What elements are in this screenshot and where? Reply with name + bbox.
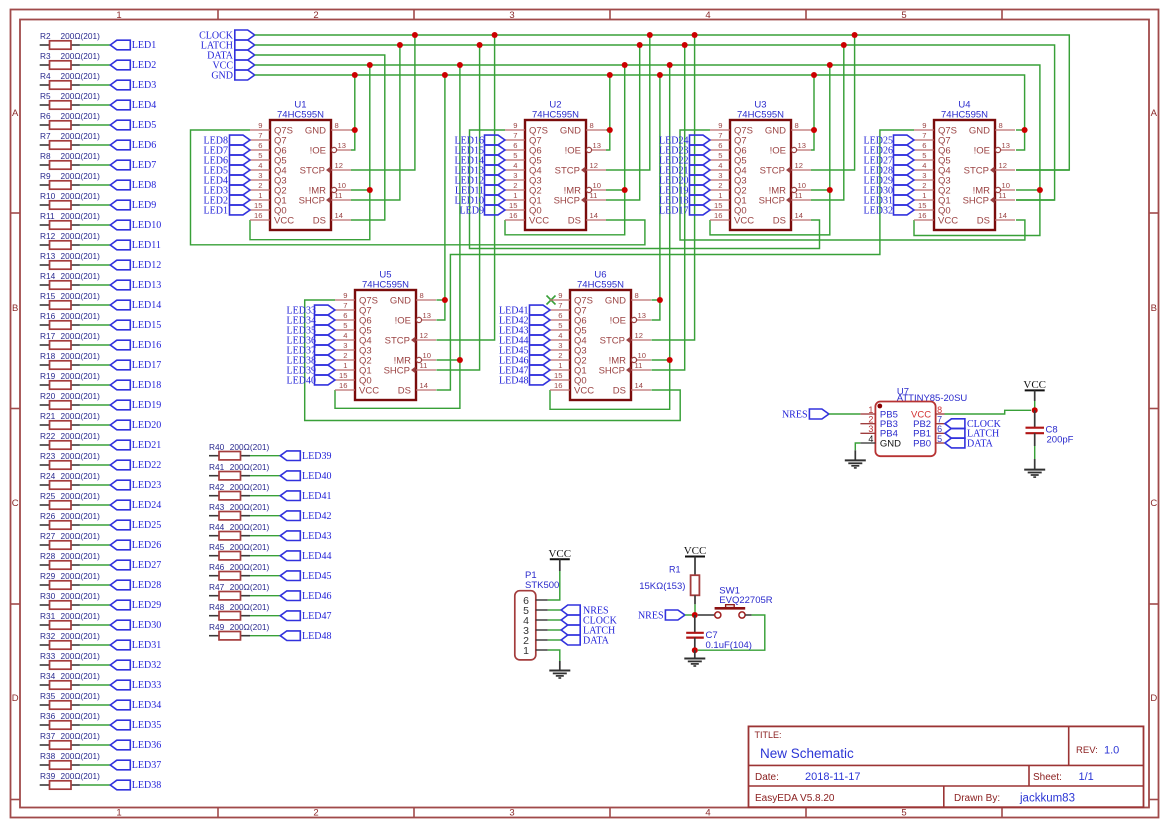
wire U4 GND pin8 stub	[1016, 129, 1025, 131]
svg-text:STCP: STCP	[385, 335, 410, 346]
svg-text:R32: R32	[40, 631, 56, 641]
wire	[80, 564, 110, 566]
net label LED37	[110, 760, 161, 771]
svg-text:!OE: !OE	[310, 145, 326, 156]
svg-text:5: 5	[558, 321, 562, 330]
net label LED12	[455, 175, 505, 186]
svg-text:200Ω(201): 200Ω(201)	[230, 542, 270, 552]
wire P1 pin6 to VCC	[548, 571, 560, 600]
svg-text:R21: R21	[40, 411, 56, 421]
svg-text:6: 6	[258, 141, 262, 150]
svg-text:16: 16	[714, 211, 722, 220]
resistor R18	[40, 351, 100, 369]
net label LED36	[287, 335, 335, 346]
svg-text:R5: R5	[40, 91, 51, 101]
svg-text:LED44: LED44	[302, 551, 331, 562]
svg-text:3: 3	[558, 341, 562, 350]
svg-text:1.0: 1.0	[1104, 745, 1119, 757]
net label LED5	[204, 165, 250, 176]
svg-text:2: 2	[718, 181, 722, 190]
shift register U2 74HC595N	[505, 100, 606, 231]
ground at U7	[845, 450, 866, 468]
svg-text:Drawn By:: Drawn By:	[954, 793, 1000, 804]
svg-text:2: 2	[258, 181, 262, 190]
svg-text:LED3: LED3	[132, 80, 156, 91]
net label LED42	[280, 511, 331, 522]
svg-text:200Ω(201): 200Ω(201)	[61, 271, 101, 281]
svg-text:R41: R41	[209, 462, 225, 472]
svg-text:LED12: LED12	[132, 260, 161, 271]
svg-text:3: 3	[513, 171, 517, 180]
svg-text:7: 7	[258, 131, 262, 140]
svg-text:R18: R18	[40, 351, 56, 361]
svg-text:LED48: LED48	[499, 375, 528, 386]
wire	[80, 424, 110, 426]
svg-text:200Ω(201): 200Ω(201)	[230, 482, 270, 492]
net label LED32	[864, 205, 914, 216]
svg-text:0.1uF(104): 0.1uF(104)	[706, 640, 752, 651]
svg-text:LED30: LED30	[132, 620, 161, 631]
svg-text:200Ω(201): 200Ω(201)	[61, 171, 101, 181]
svg-text:jackkum83: jackkum83	[1019, 793, 1075, 805]
net label LED7	[110, 160, 156, 171]
resistor R1 15K	[639, 565, 699, 605]
resistor R6	[40, 111, 100, 129]
resistor R37	[40, 731, 100, 749]
svg-text:STCP: STCP	[300, 165, 325, 176]
connector P1 STK500	[515, 570, 560, 660]
svg-text:10: 10	[798, 181, 806, 190]
svg-text:VCC: VCC	[574, 385, 594, 396]
svg-text:10: 10	[593, 181, 601, 190]
svg-text:R10: R10	[40, 191, 56, 201]
net label LED42	[499, 315, 550, 326]
resistor R12	[40, 231, 100, 249]
svg-text:11: 11	[795, 191, 803, 200]
net label LED44	[280, 551, 331, 562]
resistor R38	[40, 751, 100, 769]
svg-text:200Ω(201): 200Ω(201)	[61, 191, 101, 201]
svg-text:200Ω(201): 200Ω(201)	[61, 451, 101, 461]
svg-text:LED7: LED7	[132, 160, 156, 171]
svg-text:LED18: LED18	[132, 380, 161, 391]
wire	[80, 244, 110, 246]
resistor R49	[209, 622, 269, 640]
svg-text:New Schematic: New Schematic	[760, 746, 854, 761]
wire U5 SHCP	[436, 45, 479, 370]
svg-text:200Ω(201): 200Ω(201)	[61, 351, 101, 361]
svg-text:GND: GND	[390, 295, 411, 306]
net flag CLOCK	[199, 30, 255, 41]
svg-text:200Ω(201): 200Ω(201)	[61, 571, 101, 581]
wire U1 STCP	[351, 35, 415, 170]
capacitor C8 200pF	[1026, 410, 1074, 446]
resistor R30	[40, 591, 100, 609]
svg-text:DS: DS	[313, 215, 326, 226]
ground at C7	[684, 650, 705, 666]
power symbol VCC at C8	[1023, 379, 1046, 401]
svg-text:3: 3	[922, 171, 926, 180]
svg-text:200Ω(201): 200Ω(201)	[61, 511, 101, 521]
shift register U5 74HC595N	[335, 270, 436, 401]
net label LED22	[110, 460, 161, 471]
wire	[80, 264, 110, 266]
svg-text:5: 5	[258, 151, 262, 160]
wire	[80, 644, 110, 646]
resistor R29	[40, 571, 100, 589]
svg-text:LED35: LED35	[132, 720, 161, 731]
net flag LATCH	[201, 40, 255, 51]
wire	[80, 584, 110, 586]
wire	[80, 144, 110, 146]
svg-text:5: 5	[343, 321, 347, 330]
net label LED26	[110, 540, 161, 551]
svg-text:R37: R37	[40, 731, 56, 741]
net label LED38	[110, 780, 161, 791]
no-connect X on U6 pin 9	[547, 296, 556, 305]
net label LED35	[110, 720, 161, 731]
svg-text:3: 3	[868, 424, 873, 434]
resistor R4	[40, 71, 100, 89]
net label LED12	[110, 260, 161, 271]
svg-text:5: 5	[513, 151, 517, 160]
svg-text:R34: R34	[40, 671, 56, 681]
resistor R34	[40, 671, 100, 689]
net flag LATCH at P1	[561, 625, 615, 636]
wire P1 to LATCH	[548, 629, 561, 631]
svg-text:STCP: STCP	[760, 165, 785, 176]
svg-text:15: 15	[554, 371, 562, 380]
svg-text:1: 1	[343, 361, 347, 370]
svg-text:R13: R13	[40, 251, 56, 261]
svg-text:SHCP: SHCP	[299, 195, 325, 206]
net label LED11	[110, 240, 161, 251]
svg-text:200Ω(201): 200Ω(201)	[61, 111, 101, 121]
resistor R41	[209, 462, 269, 480]
wire	[80, 204, 110, 206]
resistor R42	[209, 482, 269, 500]
svg-text:2: 2	[513, 181, 517, 190]
svg-text:SHCP: SHCP	[759, 195, 785, 206]
net label LED24	[659, 135, 710, 146]
svg-text:SHCP: SHCP	[599, 365, 625, 376]
wire	[80, 724, 110, 726]
svg-text:5: 5	[718, 151, 722, 160]
wire	[80, 624, 110, 626]
svg-text:5: 5	[901, 808, 906, 819]
svg-text:VCC: VCC	[529, 215, 549, 226]
net label LED39	[280, 451, 331, 462]
svg-text:200Ω(201): 200Ω(201)	[61, 311, 101, 321]
svg-text:LED11: LED11	[132, 240, 161, 251]
net label LED10	[455, 195, 505, 206]
svg-text:A: A	[1151, 108, 1158, 119]
wire	[250, 495, 280, 497]
svg-text:16: 16	[918, 211, 926, 220]
svg-text:LED19: LED19	[132, 400, 161, 411]
wire P1 to NRES	[548, 609, 561, 611]
resistor R44	[209, 522, 269, 540]
svg-text:200Ω(201): 200Ω(201)	[230, 522, 270, 532]
wire	[80, 64, 110, 66]
svg-text:4: 4	[868, 434, 873, 444]
svg-text:16: 16	[554, 381, 562, 390]
resistor R45	[209, 542, 269, 560]
svg-text:LED9: LED9	[460, 205, 484, 216]
svg-text:LED17: LED17	[132, 360, 161, 371]
svg-text:LED46: LED46	[302, 591, 331, 602]
power symbol VCC at P1	[548, 548, 571, 571]
wire	[80, 704, 110, 706]
wire LATCH bus	[255, 45, 1055, 200]
capacitor C7 0.1uF	[686, 615, 752, 651]
svg-text:2: 2	[558, 351, 562, 360]
wire	[250, 455, 280, 457]
svg-text:R49: R49	[209, 622, 225, 632]
junction NRES node	[692, 612, 698, 618]
wire	[80, 404, 110, 406]
wire U3 STCP	[811, 35, 855, 170]
net label LED36	[110, 740, 161, 751]
resistor R31	[40, 611, 100, 629]
wire	[80, 304, 110, 306]
svg-text:B: B	[1151, 303, 1157, 314]
svg-text:R45: R45	[209, 542, 225, 552]
resistor R23	[40, 451, 100, 469]
svg-text:R4: R4	[40, 71, 51, 81]
net label LED3	[110, 80, 156, 91]
wire U2 GND net	[606, 129, 610, 131]
wire U5 Q7S to U6 DS	[305, 300, 681, 421]
resistor R17	[40, 331, 100, 349]
net label LED28	[864, 165, 914, 176]
svg-text:15: 15	[714, 201, 722, 210]
wire GND bus	[255, 75, 1025, 150]
net label LED21	[659, 165, 710, 176]
svg-text:16: 16	[339, 381, 347, 390]
svg-text:13: 13	[593, 141, 601, 150]
resistor R32	[40, 631, 100, 649]
svg-text:R17: R17	[40, 331, 56, 341]
svg-text:NRES: NRES	[638, 610, 664, 621]
resistor R3	[40, 51, 100, 69]
wire	[250, 575, 280, 577]
net label LED40	[287, 375, 335, 386]
svg-text:LED4: LED4	[132, 100, 156, 111]
svg-text:12: 12	[335, 161, 343, 170]
svg-text:R40: R40	[209, 442, 225, 452]
svg-text:14: 14	[420, 381, 428, 390]
wire NRES flag to node	[685, 614, 695, 616]
svg-text:4: 4	[718, 161, 722, 170]
svg-text:STCP: STCP	[600, 335, 625, 346]
svg-text:R9: R9	[40, 171, 51, 181]
wire	[80, 504, 110, 506]
svg-text:LED20: LED20	[132, 420, 161, 431]
wire	[250, 595, 280, 597]
wire U3 VCC/!MR	[811, 189, 830, 191]
svg-text:200Ω(201): 200Ω(201)	[61, 711, 101, 721]
net label LED44	[499, 335, 550, 346]
svg-text:8: 8	[420, 291, 424, 300]
svg-text:200Ω(201): 200Ω(201)	[61, 291, 101, 301]
svg-text:GND: GND	[211, 70, 233, 81]
svg-text:LED5: LED5	[132, 120, 156, 131]
title block	[749, 726, 1144, 807]
svg-text:DS: DS	[568, 215, 581, 226]
svg-text:!OE: !OE	[770, 145, 786, 156]
svg-text:R15: R15	[40, 291, 56, 301]
svg-text:13: 13	[423, 311, 431, 320]
net label LED6	[204, 155, 250, 166]
svg-text:!OE: !OE	[610, 315, 626, 326]
resistor R28	[40, 551, 100, 569]
resistor R15	[40, 291, 100, 309]
svg-text:LED31: LED31	[132, 640, 161, 651]
svg-text:LED40: LED40	[302, 471, 331, 482]
svg-text:8: 8	[590, 121, 594, 130]
svg-text:1: 1	[116, 808, 121, 819]
svg-text:200Ω(201): 200Ω(201)	[61, 411, 101, 421]
svg-text:6: 6	[513, 141, 517, 150]
svg-text:13: 13	[798, 141, 806, 150]
wire VCC bus	[255, 65, 1040, 236]
wire	[80, 604, 110, 606]
svg-text:200Ω(201): 200Ω(201)	[61, 71, 101, 81]
svg-text:LED8: LED8	[132, 180, 156, 191]
svg-text:VCC: VCC	[274, 215, 294, 226]
net label LED10	[110, 220, 161, 231]
resistor R36	[40, 711, 100, 729]
svg-text:LED48: LED48	[302, 631, 331, 642]
wire U6 SHCP	[651, 45, 684, 370]
wire	[80, 104, 110, 106]
net label LED5	[110, 120, 156, 131]
svg-text:LED41: LED41	[302, 491, 331, 502]
svg-text:200Ω(201): 200Ω(201)	[230, 442, 270, 452]
svg-text:LED17: LED17	[659, 205, 688, 216]
net label LED11	[455, 185, 505, 196]
svg-text:4: 4	[558, 331, 562, 340]
svg-text:4: 4	[343, 331, 347, 340]
svg-text:LED47: LED47	[302, 611, 331, 622]
wire U4 Q7S to U5 DS	[436, 130, 914, 390]
svg-text:GND: GND	[969, 125, 990, 136]
svg-text:LED14: LED14	[132, 300, 161, 311]
wire P1 to DATA	[548, 639, 561, 641]
wire	[80, 464, 110, 466]
svg-text:LED32: LED32	[132, 660, 161, 671]
svg-text:12: 12	[795, 161, 803, 170]
net flag DATA at P1	[561, 635, 609, 646]
resistor R9	[40, 171, 100, 189]
svg-text:!OE: !OE	[974, 145, 990, 156]
svg-text:12: 12	[999, 161, 1007, 170]
svg-text:200Ω(201): 200Ω(201)	[230, 622, 270, 632]
svg-text:200Ω(201): 200Ω(201)	[61, 131, 101, 141]
svg-text:9: 9	[258, 121, 262, 130]
resistor R47	[209, 582, 269, 600]
svg-text:LED36: LED36	[132, 740, 161, 751]
resistor R14	[40, 271, 100, 289]
net label LED17	[659, 205, 710, 216]
svg-text:R48: R48	[209, 602, 225, 612]
resistor R20	[40, 391, 100, 409]
net label LED21	[110, 440, 161, 451]
svg-text:7: 7	[937, 415, 942, 425]
svg-text:!OE: !OE	[395, 315, 411, 326]
svg-text:9: 9	[513, 121, 517, 130]
net label LED31	[110, 640, 161, 651]
wire P1 pin1 to ground	[548, 650, 560, 661]
wire U6 STCP	[651, 35, 694, 340]
svg-text:7: 7	[558, 301, 562, 310]
svg-text:6: 6	[718, 141, 722, 150]
wire U1 VCC/!MR	[351, 189, 370, 191]
wire C8 to ground	[1034, 446, 1036, 459]
wire	[80, 84, 110, 86]
net label LED6	[110, 140, 156, 151]
wire U4 SHCP	[1016, 199, 1055, 201]
resistor R11	[40, 211, 100, 229]
svg-text:STCP: STCP	[964, 165, 989, 176]
svg-text:R42: R42	[209, 482, 225, 492]
svg-text:R31: R31	[40, 611, 56, 621]
svg-text:10: 10	[338, 181, 346, 190]
wire	[80, 544, 110, 546]
wire U1 SHCP	[351, 45, 400, 200]
net label LED16	[110, 340, 161, 351]
svg-text:LED43: LED43	[302, 531, 331, 542]
shift register U6 74HC595N	[550, 270, 651, 401]
svg-text:R19: R19	[40, 371, 56, 381]
net flag DATA	[207, 50, 255, 61]
svg-text:3: 3	[509, 10, 514, 21]
svg-text:200Ω(201): 200Ω(201)	[61, 551, 101, 561]
svg-text:14: 14	[635, 381, 643, 390]
net label LED41	[280, 491, 331, 502]
svg-text:15: 15	[918, 201, 926, 210]
svg-text:3: 3	[258, 171, 262, 180]
svg-text:R23: R23	[40, 451, 56, 461]
net label LED45	[280, 571, 331, 582]
svg-text:7: 7	[922, 131, 926, 140]
svg-text:B: B	[12, 303, 18, 314]
svg-text:10: 10	[638, 351, 646, 360]
svg-text:14: 14	[335, 211, 343, 220]
svg-text:200Ω(201): 200Ω(201)	[61, 331, 101, 341]
shift register U1 74HC595N	[250, 100, 351, 231]
svg-text:10: 10	[423, 351, 431, 360]
svg-text:200Ω(201): 200Ω(201)	[61, 391, 101, 401]
svg-text:14: 14	[590, 211, 598, 220]
svg-text:LED42: LED42	[302, 511, 331, 522]
resistor R35	[40, 691, 100, 709]
svg-text:15: 15	[509, 201, 517, 210]
svg-text:13: 13	[638, 311, 646, 320]
svg-text:LED15: LED15	[132, 320, 161, 331]
net flag LATCH at U7	[945, 428, 999, 439]
resistor R7	[40, 131, 100, 149]
net label LED1	[204, 205, 250, 216]
svg-text:12: 12	[420, 331, 428, 340]
wire	[250, 615, 280, 617]
wire	[80, 184, 110, 186]
svg-text:3: 3	[718, 171, 722, 180]
junction at C8 top	[1032, 407, 1038, 413]
svg-text:200Ω(201): 200Ω(201)	[61, 431, 101, 441]
svg-text:200Ω(201): 200Ω(201)	[230, 562, 270, 572]
